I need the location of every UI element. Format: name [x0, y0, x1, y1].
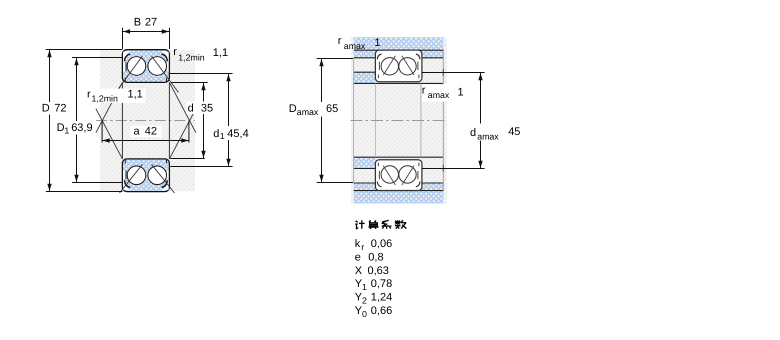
right hatch background — [351, 37, 447, 203]
dimension a 42 — [102, 140, 189, 142]
svg-text:D: D — [289, 103, 297, 115]
svg-text:42: 42 — [145, 126, 157, 138]
计 — [356, 221, 358, 223]
svg-text:amax: amax — [428, 90, 450, 100]
svg-text:amax: amax — [297, 107, 319, 117]
bearing side faces between sections — [121, 82, 123, 158]
svg-text:d: d — [188, 102, 194, 114]
side slot right — [166, 170, 169, 179]
shaft shoulder strips (blue, left side) — [354, 72, 376, 83]
svg-text:a: a — [134, 126, 141, 138]
dimension damax 45 — [422, 73, 485, 169]
dimension D 72 — [46, 50, 123, 192]
svg-text:63,9: 63,9 — [71, 122, 92, 134]
bearing top section (left figure) — [116, 50, 179, 93]
heading 计算系数 drawn as strokes (CJK not in Liberation) — [355, 220, 406, 229]
svg-text:45,4: 45,4 — [227, 128, 248, 140]
svg-text:k: k — [355, 238, 361, 250]
label r 1,2min 1,1 (left) — [86, 89, 146, 104]
dimension D1 63,9 — [72, 58, 122, 183]
svg-text:e: e — [355, 251, 361, 263]
right centerline — [351, 120, 447, 122]
shaft seat lines — [354, 82, 444, 84]
dimension Damax 65 — [317, 59, 353, 183]
svg-text:d: d — [213, 128, 219, 140]
shield notch bottom-right — [161, 180, 169, 191]
svg-text:d: d — [470, 127, 476, 139]
svg-text:D: D — [42, 103, 50, 115]
svg-text:1: 1 — [220, 131, 225, 141]
svg-text:27: 27 — [145, 16, 157, 28]
svg-text:0,06: 0,06 — [371, 238, 392, 250]
right vertical edge — [442, 50, 444, 190]
svg-text:1: 1 — [458, 87, 464, 99]
数 — [397, 220, 399, 225]
svg-text:0,63: 0,63 — [368, 265, 389, 277]
left centerline — [96, 120, 195, 122]
side slot right — [166, 62, 169, 71]
svg-text:r: r — [422, 84, 426, 96]
label r amax 1 (middle) — [422, 84, 466, 101]
svg-text:X: X — [355, 265, 363, 277]
svg-text:r: r — [361, 242, 364, 252]
svg-text:1,2min: 1,2min — [92, 94, 119, 104]
svg-text:0,78: 0,78 — [371, 278, 392, 290]
svg-text:35: 35 — [201, 102, 213, 114]
housing left edge — [353, 58, 355, 183]
svg-text:2: 2 — [362, 296, 367, 306]
svg-text:72: 72 — [54, 103, 66, 115]
svg-text:amax: amax — [477, 131, 499, 141]
svg-text:0,8: 0,8 — [368, 251, 383, 263]
a-dimension vertex ticks — [101, 121, 103, 143]
svg-text:1,1: 1,1 — [128, 89, 143, 101]
housing bottom (blue) — [354, 183, 444, 204]
balls — [127, 166, 146, 185]
svg-text:1,1: 1,1 — [213, 47, 228, 59]
svg-text:amax: amax — [344, 41, 366, 51]
svg-text:r: r — [338, 35, 342, 47]
svg-text:r: r — [173, 46, 177, 58]
dimension B 27 — [123, 28, 170, 49]
inner ring chamfer ticks — [124, 78, 126, 82]
svg-text:B: B — [134, 16, 141, 28]
svg-text:r: r — [87, 89, 91, 101]
shield notch top-left — [123, 51, 131, 62]
svg-text:0,66: 0,66 — [371, 305, 392, 317]
bearing top section (right figure) — [375, 50, 422, 82]
svg-text:1,24: 1,24 — [371, 292, 392, 304]
side slot left — [123, 170, 126, 179]
contact lines — [120, 164, 143, 193]
bearing bottom section (right figure) — [375, 160, 422, 191]
dimension d1 45,4 — [169, 74, 232, 167]
shield notch bottom-left — [123, 180, 131, 191]
bearing bottom section (left figure) — [120, 159, 175, 193]
dimension d 35 — [170, 83, 207, 159]
svg-text:45: 45 — [508, 126, 520, 138]
bearing faces between sections (right figure) — [375, 83, 377, 157]
svg-text:1: 1 — [362, 282, 367, 292]
left hatch background — [100, 50, 195, 191]
diamond contact-cone lines — [96, 82, 196, 158]
housing top (blue) — [354, 37, 444, 58]
svg-text:0: 0 — [362, 309, 367, 319]
side slot left — [123, 62, 126, 71]
svg-text:1: 1 — [64, 126, 69, 136]
shoulder edge ticks on damax extension lines — [442, 69, 444, 76]
balls — [127, 57, 146, 76]
inner ring chamfer ticks — [124, 159, 126, 163]
contact lines — [116, 56, 143, 93]
系 — [382, 220, 389, 222]
svg-text:1,2min: 1,2min — [178, 53, 205, 63]
算 — [369, 221, 376, 223]
svg-text:1: 1 — [374, 37, 380, 49]
shield notch top-right — [161, 51, 169, 62]
svg-text:65: 65 — [326, 103, 338, 115]
svg-text:D: D — [57, 122, 65, 134]
